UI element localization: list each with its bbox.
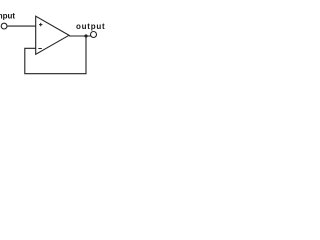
svg-text:input: input — [0, 11, 15, 20]
svg-text:output: output — [76, 22, 105, 31]
wire feedback loop — [25, 36, 86, 74]
terminal input — [1, 23, 7, 29]
wire input to op-amp + — [7, 25, 36, 27]
op-amp U1 — [36, 16, 69, 54]
junction dot — [84, 34, 87, 37]
wire output — [69, 35, 91, 37]
terminal output — [91, 32, 97, 38]
